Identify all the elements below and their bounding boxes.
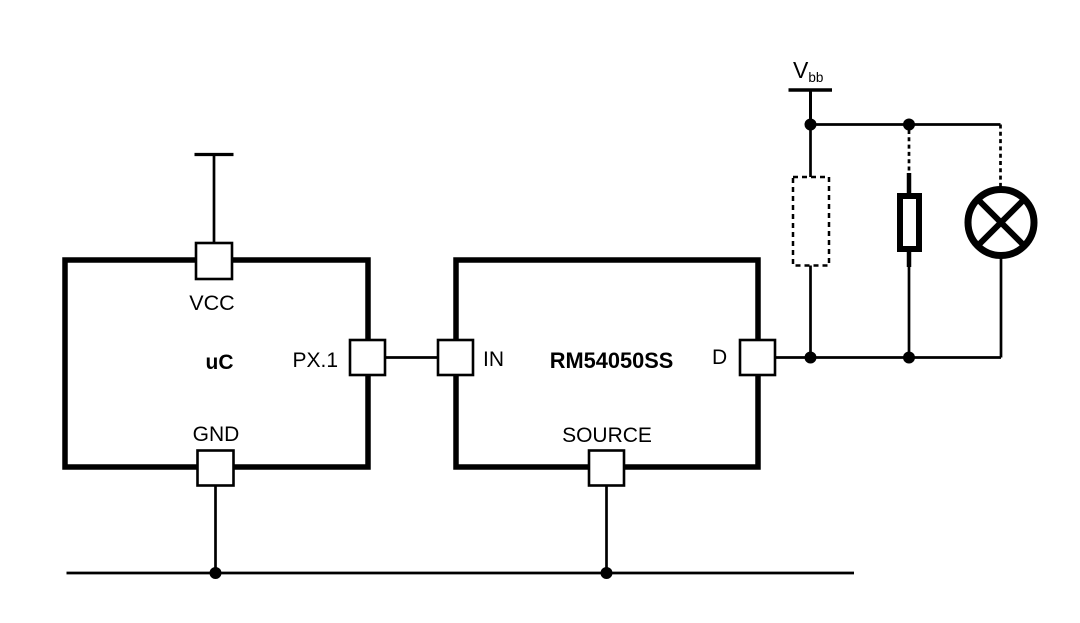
svg-text:VCC: VCC (189, 291, 234, 315)
junction Vbb rail left (805, 119, 817, 131)
junction D node middle (903, 352, 915, 364)
wire D node (bottom horizontal) (775, 356, 1001, 359)
lamp L1 (968, 190, 1034, 256)
wire GND to ground bus (214, 486, 217, 574)
pin VCC (189, 243, 234, 315)
supply label Vbb (793, 57, 823, 85)
pin GND (193, 423, 240, 486)
wire rail to lamp (dashed) (999, 125, 1002, 188)
svg-text:PX.1: PX.1 (292, 349, 338, 372)
pin D (712, 340, 775, 375)
wire R1 to D node (809, 266, 812, 358)
wire rail to R1 (809, 125, 812, 178)
wire SOURCE to ground bus (605, 486, 608, 574)
microcontroller block uC (65, 260, 368, 467)
wire PX.1 to IN (385, 356, 438, 359)
power symbol VCC (T-bar) (195, 153, 234, 156)
svg-text:RM54050SS: RM54050SS (550, 348, 674, 373)
svg-text:GND: GND (193, 423, 240, 446)
ground bus (67, 572, 855, 575)
resistor R2 (900, 173, 919, 267)
IC block RM54050SS (456, 260, 758, 467)
svg-text:Vbb: Vbb (793, 57, 823, 85)
wire Vbb rail (top horizontal) (811, 123, 1001, 126)
power symbol Vbb (bar) (789, 88, 833, 92)
wire R2 to D node (908, 265, 911, 358)
svg-text:IN: IN (483, 348, 504, 371)
junction SOURCE/bus (601, 567, 613, 579)
pin PX.1 (292, 340, 385, 375)
wire Vbb stub (809, 90, 812, 125)
wire lamp to D node (1000, 256, 1003, 358)
label uC (206, 351, 234, 374)
svg-text:SOURCE: SOURCE (562, 424, 652, 447)
wire VCC stub (213, 155, 216, 244)
pin IN (438, 340, 504, 375)
junction D node left (805, 352, 817, 364)
pin SOURCE (562, 424, 652, 486)
svg-text:D: D (712, 346, 727, 369)
wire rail to R2 (dashed) (908, 130, 911, 176)
label RM54050SS (550, 348, 674, 373)
svg-text:uC: uC (206, 351, 234, 374)
junction Vbb rail middle (903, 119, 915, 131)
resistor R1 (optional load, dashed) (793, 177, 829, 266)
junction GND/bus (210, 567, 222, 579)
